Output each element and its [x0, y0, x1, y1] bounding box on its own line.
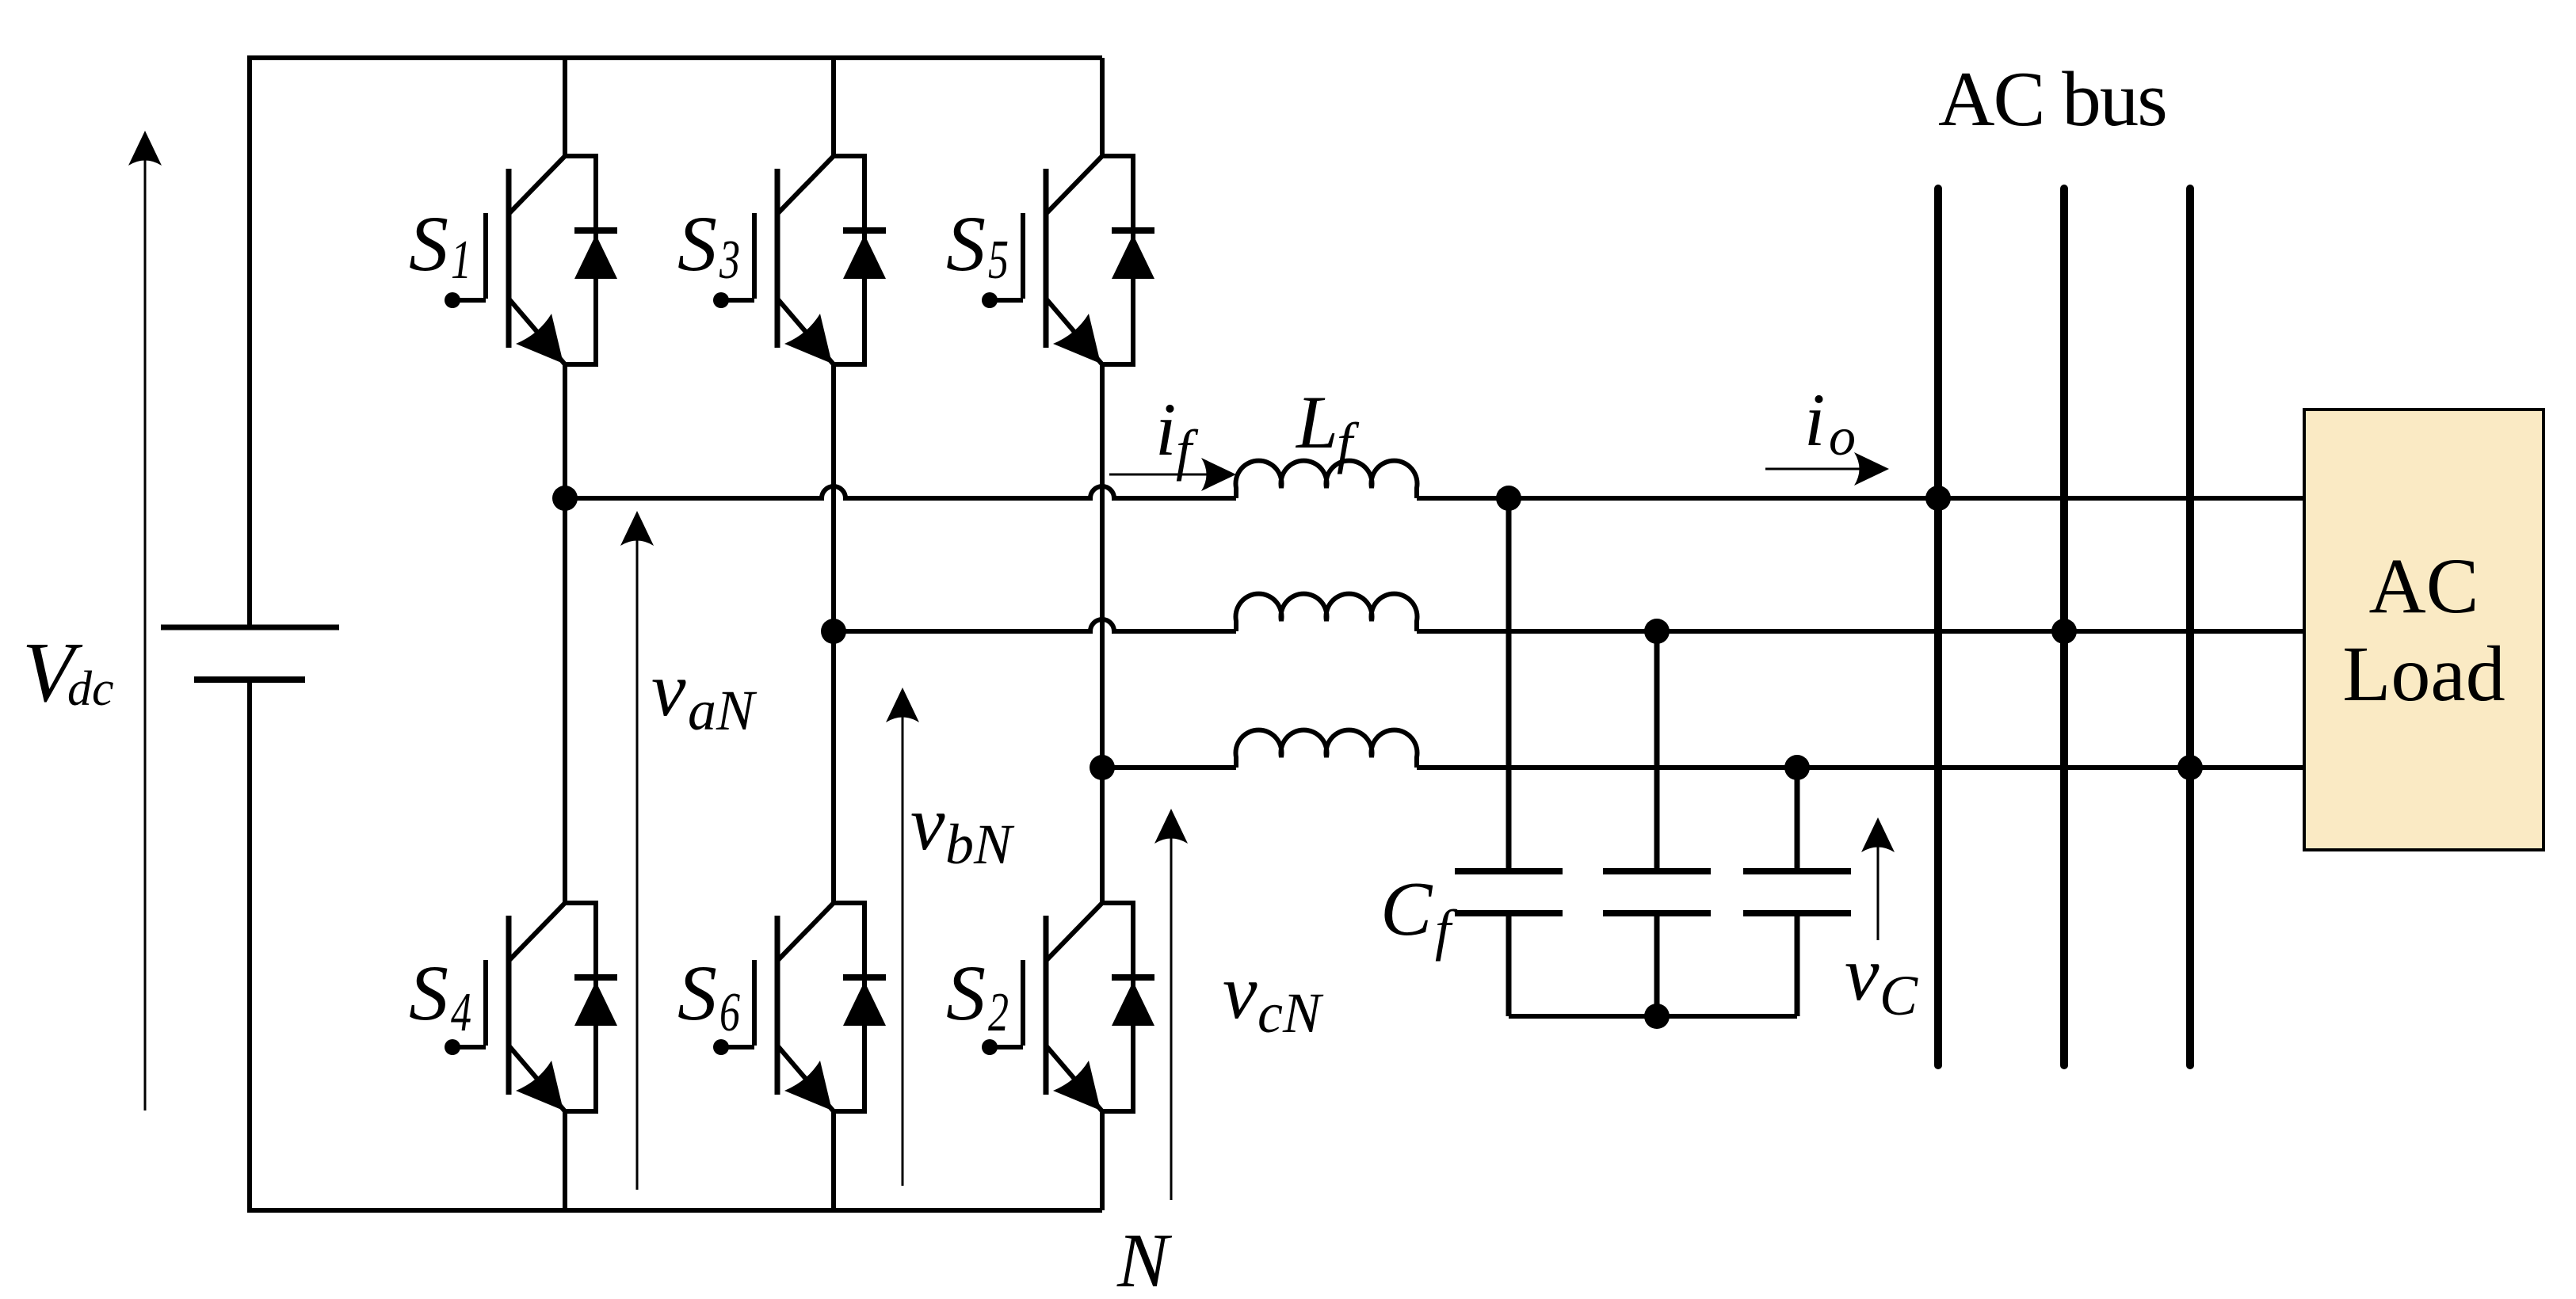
svg-text:Load: Load — [2342, 630, 2505, 718]
svg-text:v: v — [1223, 950, 1257, 1035]
junction dot phase c to AC bus 3 — [2177, 755, 2203, 780]
IGBT switch S2 with antiparallel diode — [982, 903, 1154, 1111]
arrow Vdc (DC-link voltage arrow) — [144, 158, 147, 1110]
wire: phase-a leg lower — [563, 1111, 567, 1210]
junction dot capacitor star point — [1644, 1004, 1670, 1029]
capacitor Cf phase c branch — [1743, 871, 1851, 1016]
wire: left DC rail upper segment — [247, 55, 252, 625]
svg-text:v: v — [1845, 931, 1880, 1017]
label vcN — [1223, 950, 1324, 1045]
svg-text:aN: aN — [688, 679, 758, 742]
junction dot phase a to capacitor — [1496, 486, 1521, 511]
svg-text:S: S — [946, 200, 986, 288]
battery Vdc positive plate — [161, 625, 339, 630]
IGBT switch S1 with antiparallel diode — [445, 156, 617, 364]
wire: phase-b output line with hop over leg c — [834, 619, 1236, 631]
arrow vbN (phase b pole voltage) — [902, 714, 904, 1186]
wire: phase-c leg lower — [1100, 1111, 1105, 1210]
wire: phase-b leg lower — [831, 1111, 836, 1210]
AC Load block — [2304, 410, 2544, 850]
wire: phase c to capacitor Cf branch — [1795, 768, 1800, 871]
svg-text:N: N — [1116, 1218, 1173, 1299]
capacitor Cf phase b branch — [1603, 871, 1711, 1016]
svg-text:cN: cN — [1257, 981, 1324, 1045]
label vC — [1845, 931, 1918, 1027]
svg-text:AC bus: AC bus — [1938, 56, 2166, 143]
wire: phase-a line from inductor to AC load — [1417, 496, 2304, 501]
svg-text:3: 3 — [719, 230, 740, 291]
wire: phase-a leg upper — [563, 58, 567, 156]
AC bus line 2 — [2060, 189, 2068, 1065]
svg-text:o: o — [1829, 406, 1856, 467]
wire: bottom DC rail (node N rail) — [247, 1208, 1102, 1213]
AC bus line 3 — [2186, 189, 2194, 1065]
svg-text:bN: bN — [945, 813, 1015, 876]
node b junction dot — [821, 619, 846, 644]
svg-text:1: 1 — [451, 230, 471, 291]
wire: capacitor common (star point) bus — [1509, 1014, 1797, 1019]
junction dot phase c to capacitor — [1784, 755, 1810, 780]
wire: phase-c leg upper — [1100, 58, 1105, 156]
svg-text:6: 6 — [719, 982, 740, 1043]
IGBT switch S4 with antiparallel diode — [445, 903, 617, 1111]
arrow io (output current) — [1765, 468, 1862, 470]
label vbN — [910, 781, 1015, 876]
label Cf — [1380, 867, 1458, 962]
inductor Lf phase a — [1236, 461, 1418, 498]
svg-text:S: S — [409, 949, 448, 1037]
wire: phase-b leg upper — [831, 58, 836, 156]
IGBT switch S6 with antiparallel diode — [713, 903, 886, 1111]
wire: phase-b line from inductor to AC load — [1417, 629, 2304, 634]
node a junction dot — [552, 486, 578, 511]
label S4 — [409, 949, 471, 1043]
svg-text:S: S — [677, 200, 717, 288]
wire: phase-c output line — [1102, 765, 1236, 770]
wire: phase-a leg middle — [563, 364, 567, 903]
label S1 — [409, 200, 471, 291]
wire: left DC rail lower segment — [247, 683, 252, 1213]
svg-text:S: S — [946, 949, 986, 1037]
svg-text:C: C — [1380, 867, 1433, 952]
arrow vaN (phase a pole voltage) — [636, 537, 639, 1190]
junction dot phase a to AC bus 1 — [1925, 486, 1951, 511]
svg-text:i: i — [1804, 378, 1825, 462]
arrow if (filter current) — [1109, 474, 1208, 476]
AC bus line 1 — [1934, 189, 1942, 1065]
wire: phase-c leg middle — [1100, 364, 1105, 903]
wire: top DC rail — [248, 55, 1102, 60]
IGBT switch S5 with antiparallel diode — [982, 156, 1154, 364]
label S2 — [946, 949, 1009, 1043]
IGBT switch S3 with antiparallel diode — [713, 156, 886, 364]
label if — [1155, 387, 1199, 482]
svg-text:S: S — [677, 949, 717, 1037]
svg-text:L: L — [1295, 380, 1338, 464]
svg-text:v: v — [910, 781, 945, 867]
junction dot phase b to capacitor — [1644, 619, 1670, 644]
wire: phase-a output line with hops over legs b,c — [565, 486, 1236, 498]
svg-text:2: 2 — [988, 982, 1009, 1043]
label S6 — [677, 949, 740, 1043]
battery Vdc negative plate — [194, 676, 305, 683]
wire: phase b to capacitor Cf branch — [1654, 631, 1660, 871]
capacitor Cf phase a branch — [1455, 871, 1563, 1016]
junction dot phase b to AC bus 2 — [2051, 619, 2077, 644]
label Lf — [1295, 380, 1360, 474]
wire: phase-b leg middle — [831, 364, 836, 903]
svg-text:dc: dc — [67, 662, 114, 716]
wire: phase a to capacitor Cf branch — [1506, 498, 1512, 871]
arrow vcN (phase c pole voltage) — [1170, 835, 1173, 1200]
arrow vC (capacitor voltage) — [1877, 844, 1880, 940]
node c junction dot — [1090, 755, 1115, 780]
svg-text:AC: AC — [2369, 542, 2479, 630]
inductor Lf phase b — [1236, 594, 1418, 631]
label S5 — [946, 200, 1009, 291]
svg-text:4: 4 — [451, 982, 471, 1043]
wire: phase-c line from inductor to AC load — [1417, 765, 2304, 770]
svg-text:C: C — [1880, 964, 1918, 1027]
svg-text:v: v — [651, 647, 686, 733]
svg-text:5: 5 — [988, 230, 1009, 291]
inductor Lf phase c — [1236, 730, 1418, 768]
label vaN — [651, 647, 758, 742]
label S3 — [677, 200, 740, 291]
svg-text:S: S — [409, 200, 448, 288]
label io — [1804, 378, 1856, 467]
svg-text:i: i — [1155, 387, 1176, 471]
